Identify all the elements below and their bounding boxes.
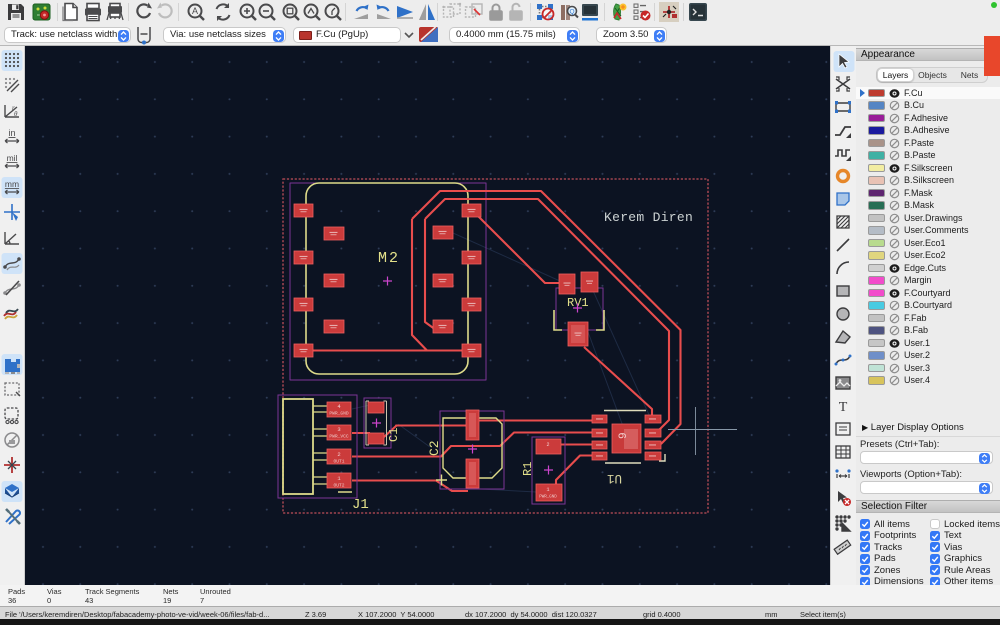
ratsnest lines — [352, 233, 650, 492]
wire U1 row4 to R1 pad1 — [556, 456, 592, 485]
wire C2 top pad to U1 row1 — [473, 419, 592, 421]
svg-text:θ: θ — [14, 110, 18, 118]
svg-text:Kerem Diren: Kerem Diren — [604, 210, 693, 225]
footprint C1 courtyard — [364, 398, 391, 448]
wire J1 OUT2 to C2 bottom — [352, 481, 468, 492]
footprint M2 silkscreen body — [306, 183, 468, 374]
C2 polarity mark — [436, 475, 447, 486]
footprint RV1 courtyard — [556, 288, 603, 330]
footprint U1 silkscreen — [604, 411, 646, 464]
svg-text:OUT1: OUT1 — [333, 459, 344, 465]
svg-text:R1: R1 — [521, 462, 535, 476]
svg-text:C1: C1 — [387, 428, 401, 442]
anchor C1 — [372, 419, 381, 428]
C1 pads — [368, 402, 384, 444]
svg-text:T: T — [839, 400, 848, 415]
J1 leads — [313, 406, 327, 484]
svg-text:PWR_GND: PWR_GND — [329, 411, 349, 417]
svg-text:1: 1 — [546, 487, 549, 493]
svg-text:PWR_GND: PWR_GND — [539, 496, 557, 500]
R1 pad labels — [546, 442, 549, 493]
svg-text:M2: M2 — [378, 250, 400, 267]
anchor RV1 — [573, 304, 582, 313]
svg-text:9: 9 — [618, 432, 630, 439]
footprint M2 courtyard — [290, 183, 486, 380]
wire RV1 to U1 right row1 — [584, 347, 652, 415]
svg-text:OUT2: OUT2 — [333, 483, 344, 489]
footprint C1 silkscreen — [366, 401, 387, 445]
U1 pads — [592, 415, 661, 460]
wire M2 vertical A — [412, 219, 427, 351]
J1 silkscreen tick — [338, 491, 352, 493]
svg-text:in: in — [8, 128, 15, 138]
svg-text:mm: mm — [5, 179, 19, 189]
wire J1 OUT1 to U1 row2 — [352, 433, 592, 457]
svg-text:Q: Q — [569, 9, 574, 16]
cursor crosshair — [668, 407, 737, 455]
footprint C2 courtyard — [440, 411, 504, 489]
svg-text:2: 2 — [337, 451, 340, 458]
pad text marks — [300, 209, 657, 457]
RV1 silkscreen brackets — [554, 310, 604, 330]
C2 pads — [466, 410, 479, 488]
wire C1 to C2 top pad — [384, 426, 466, 438]
wire J1 pad3 to C1 — [352, 432, 370, 434]
footprint R1 courtyard — [532, 437, 565, 504]
J1 silkscreen body — [283, 399, 313, 494]
C2 silkscreen body — [443, 418, 502, 478]
wire top outer pair — [412, 191, 681, 444]
RV1 pads — [559, 272, 598, 346]
anchor R1 — [544, 466, 553, 475]
board edge (Edge.Cuts hatched outline) — [283, 179, 708, 513]
footprint M2 pads — [294, 204, 481, 357]
J1 pads — [327, 402, 351, 488]
svg-text:U1: U1 — [607, 471, 622, 485]
svg-text:2: 2 — [546, 442, 549, 448]
J1 pad labels — [337, 403, 341, 482]
svg-text:C2: C2 — [427, 440, 442, 456]
svg-text:mil: mil — [7, 153, 18, 163]
anchor M2 — [383, 277, 392, 286]
svg-text:A: A — [192, 6, 198, 16]
footprint J1 courtyard — [278, 395, 357, 498]
svg-text:3: 3 — [337, 426, 340, 433]
orange overlay window corner — [984, 36, 1000, 76]
grid dots — [25, 46, 830, 585]
wire M2 pad to RV1 — [478, 216, 562, 283]
svg-text:J1: J1 — [352, 497, 369, 513]
wire M2 bottom trace — [303, 349, 472, 351]
R1 pads — [536, 439, 562, 501]
green dot — [991, 2, 997, 8]
wire R1 to U1 row3 — [560, 443, 592, 445]
wire top inner pair — [425, 199, 669, 431]
svg-text:PWR_VCC: PWR_VCC — [329, 434, 349, 440]
anchor C2 — [468, 445, 477, 454]
U1 thermal pad 9 — [612, 424, 641, 453]
wire M2 vertical B — [425, 219, 436, 330]
